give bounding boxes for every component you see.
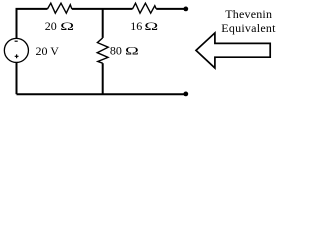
resistor 16 ohm (zigzag, top wire)	[133, 3, 157, 13]
svg-text:Thevenin: Thevenin	[225, 7, 272, 21]
svg-text:20: 20	[45, 19, 57, 33]
wire: middle branch lower stub	[102, 63, 104, 94]
svg-text:80: 80	[110, 43, 122, 57]
svg-text:Ω: Ω	[144, 20, 158, 33]
wire: left branch lower stub (source to bottom wire)	[16, 62, 18, 94]
polarity plus (inside source, bottom)	[15, 54, 19, 58]
wire: top right segment	[156, 8, 185, 10]
resistor 20 ohm (zigzag, top wire)	[48, 3, 72, 13]
wire: top middle segment	[72, 8, 133, 10]
voltage source 20V (circle)	[4, 38, 28, 62]
wire: left branch top-left corner (left vertical + top-left horizontal)	[17, 9, 48, 38]
terminal b (bottom, black dot)	[183, 92, 188, 97]
svg-text:Ω: Ω	[60, 20, 74, 33]
wire: middle branch upper stub (junction to resistor)	[102, 9, 104, 38]
resistor 80 ohm (vertical zigzag, middle branch)	[97, 38, 108, 63]
svg-text:16: 16	[130, 19, 142, 33]
wire: bottom horizontal	[17, 93, 186, 95]
terminal a (top, black dot)	[183, 6, 188, 11]
annotation: left-pointing block arrow (Thevenin equivalent seen from terminals)	[196, 33, 270, 68]
svg-text:Equivalent: Equivalent	[221, 21, 276, 35]
svg-text:Ω: Ω	[125, 44, 139, 57]
polarity minus (inside source, top)	[15, 40, 18, 42]
svg-text:20 V: 20 V	[36, 44, 60, 58]
